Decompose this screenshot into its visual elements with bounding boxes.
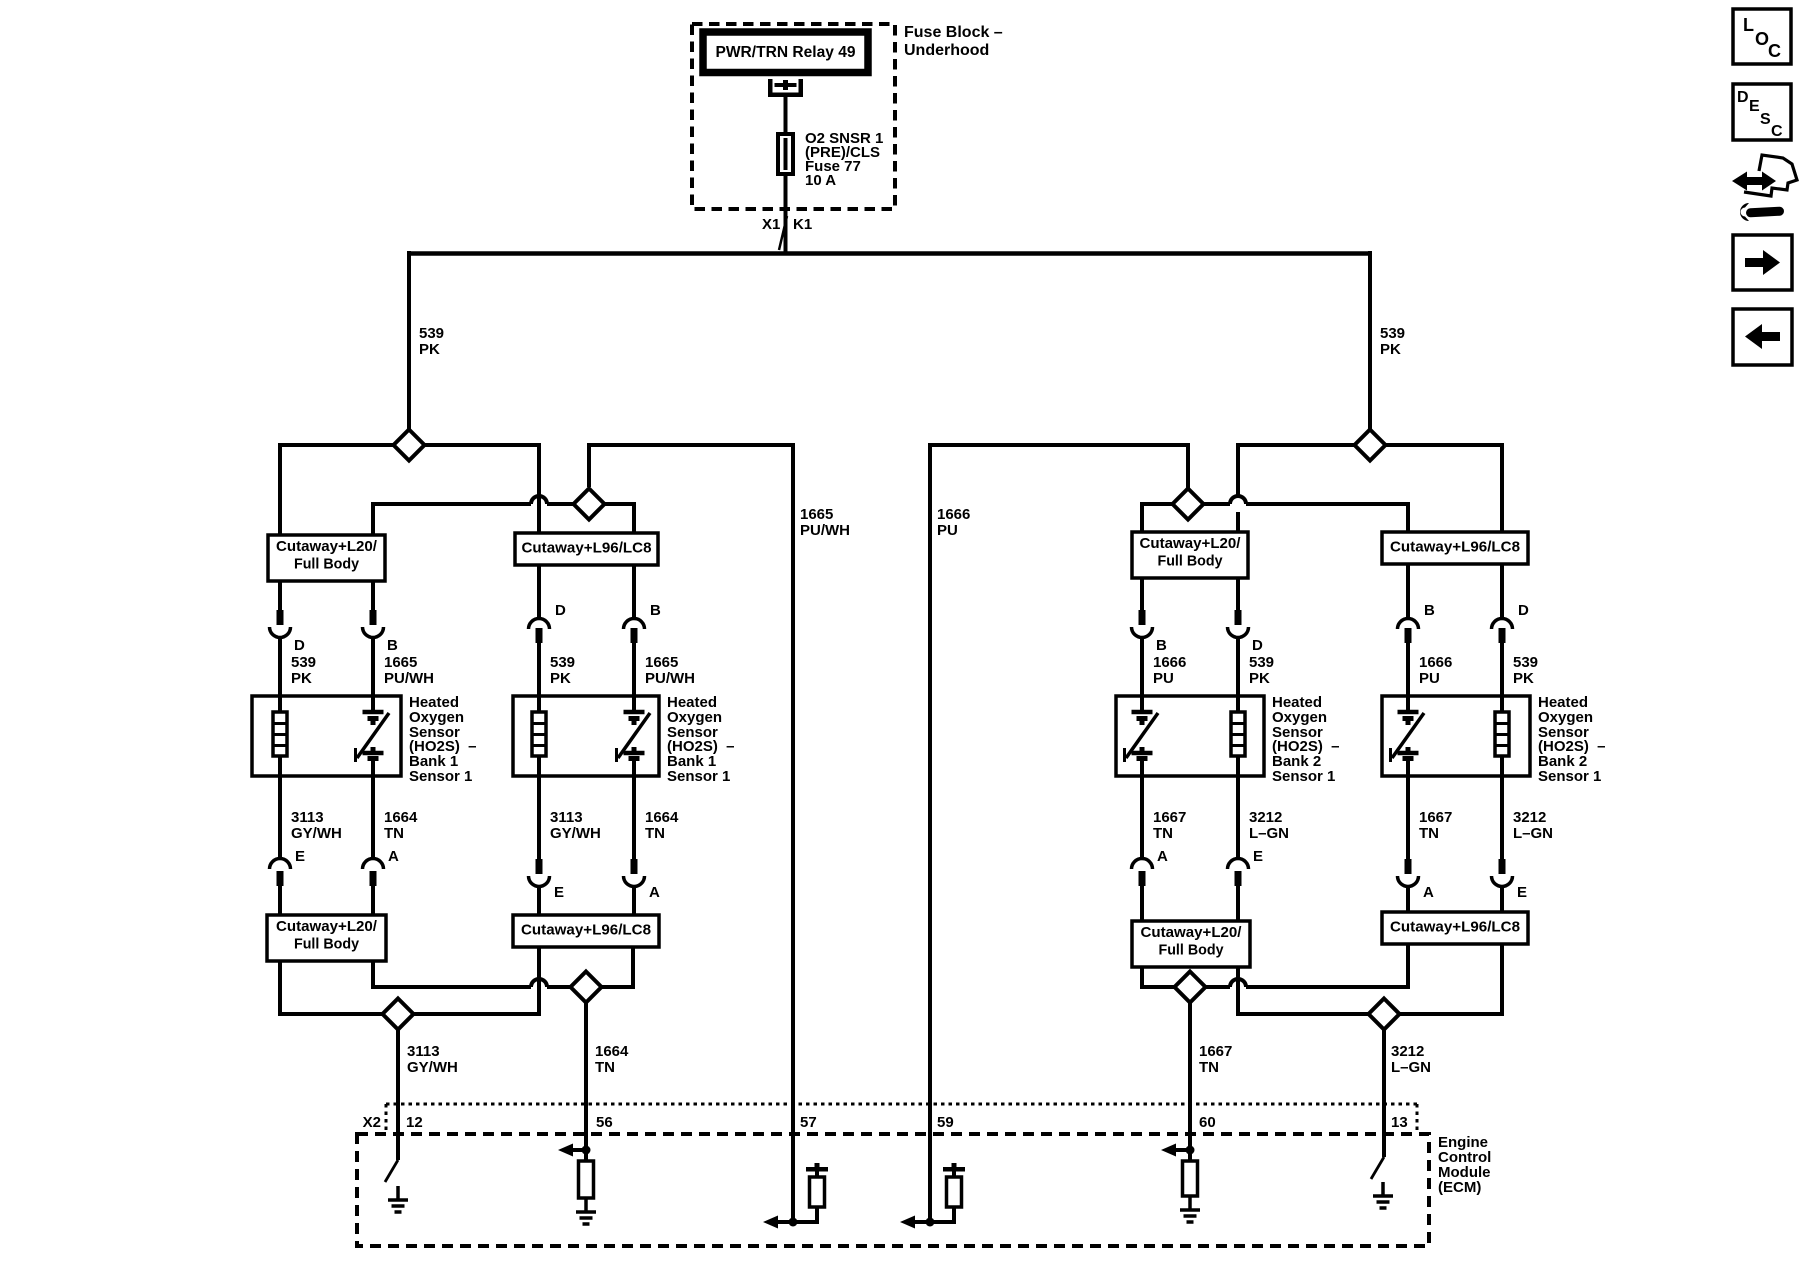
label 539 PK branch3 (1249, 654, 1274, 687)
svg-text:539: 539 (1513, 654, 1538, 671)
ECM pin60 resistor (1183, 1161, 1198, 1196)
ground pin56 (576, 1198, 596, 1224)
wire 539 PK horizontal (right) (1238, 443, 1502, 532)
svg-text:1664: 1664 (384, 809, 418, 826)
svg-text:TN: TN (645, 825, 665, 842)
node X1 / K1 (762, 216, 812, 250)
fuse block - underhood dashed box (692, 24, 895, 209)
svg-text:S: S (1760, 111, 1771, 128)
splice diamond 539 right (1355, 430, 1386, 461)
svg-text:PK: PK (291, 670, 312, 687)
ECM pin56 arrow (558, 1144, 586, 1157)
svg-text:1665: 1665 (645, 654, 678, 671)
svg-text:PU/WH: PU/WH (384, 670, 434, 687)
pin 13 (1391, 1114, 1408, 1131)
label Heated Oxygen Sensor Bank 2 (L96) (1538, 694, 1606, 785)
wire pin D branch3 (1236, 578, 1240, 696)
sensor cell (1391, 696, 1425, 776)
svg-text:Full Body: Full Body (1159, 942, 1225, 959)
label 3212 L-GN (1391, 1043, 1431, 1076)
svg-text:3113: 3113 (407, 1043, 440, 1060)
svg-text:3212: 3212 (1249, 809, 1282, 826)
svg-text:3212: 3212 (1513, 809, 1546, 826)
svg-text:D: D (1252, 637, 1263, 654)
pin E connector branch4 (1492, 859, 1528, 901)
fuse label (805, 130, 883, 189)
heater element (1231, 696, 1245, 776)
splice diamond 1665 left (574, 489, 605, 520)
svg-text:Full Body: Full Body (1158, 553, 1224, 570)
svg-text:3113: 3113 (550, 809, 583, 826)
splice diamond 1666 (1173, 489, 1204, 520)
svg-text:1665: 1665 (800, 506, 833, 523)
ground pin12 (388, 1186, 408, 1212)
label 539 PK branch4 (1513, 654, 1538, 687)
wire 3212 L-GN branch3 (1236, 776, 1240, 921)
svg-text:TN: TN (595, 1059, 615, 1076)
svg-text:L–GN: L–GN (1391, 1059, 1431, 1076)
svg-text:C: C (1771, 123, 1783, 140)
label 539 PK branch1 (291, 654, 316, 687)
wire pin B branch4 (1406, 564, 1410, 696)
svg-text:B: B (387, 637, 398, 654)
svg-text:TN: TN (1153, 825, 1173, 842)
label 1664 TN branch1 (384, 809, 418, 842)
wire 3212 L-GN rail (right) (1236, 944, 1502, 1016)
label Engine Control Module (ECM) (1438, 1134, 1491, 1196)
svg-text:K1: K1 (793, 216, 812, 233)
splice diamond 3212 (1369, 999, 1400, 1030)
svg-text:E: E (1253, 848, 1263, 865)
icon harness arrows and wrench (1732, 155, 1797, 221)
wire 3212 L-GN branch4 (1500, 776, 1504, 912)
wire 1664 TN branch1 (371, 776, 375, 915)
label X2 (363, 1114, 381, 1131)
ECM pin59 arrow (900, 1216, 930, 1229)
splice diamond 1667 (1175, 972, 1206, 1003)
label 3113 GY/WH branch1 (291, 809, 342, 842)
svg-text:539: 539 (419, 325, 444, 342)
svg-text:PK: PK (1380, 341, 1401, 358)
svg-text:D: D (294, 637, 305, 654)
svg-text:1667: 1667 (1419, 809, 1452, 826)
connector box Cutaway+L96/LC8 lower left (513, 915, 659, 947)
label 1666 PU branch4 (1419, 654, 1452, 687)
svg-text:PU/WH: PU/WH (800, 522, 850, 539)
svg-text:Fuse Block –: Fuse Block – (904, 24, 1003, 41)
pin E connector branch1 (270, 848, 306, 886)
svg-text:1666: 1666 (1153, 654, 1186, 671)
svg-text:B: B (650, 602, 661, 619)
fuse block label (904, 24, 1003, 59)
pin 60 (1199, 1114, 1216, 1131)
svg-text:3212: 3212 (1391, 1043, 1424, 1060)
label 1666 PU branch3 (1153, 654, 1186, 687)
svg-text:Sensor 1: Sensor 1 (667, 768, 730, 785)
svg-text:12: 12 (406, 1114, 423, 1131)
pin A connector branch4 (1398, 859, 1435, 901)
svg-text:Full Body: Full Body (294, 936, 360, 953)
wire relay to fuse (784, 97, 788, 134)
pin D connector branch3 (1228, 610, 1264, 654)
svg-text:Sensor 1: Sensor 1 (409, 768, 472, 785)
wire 1667 TN branch3 (1140, 776, 1144, 921)
svg-text:GY/WH: GY/WH (550, 825, 601, 842)
wire 1664 TN to ECM pin 56 (584, 1002, 588, 1161)
svg-text:C: C (1768, 41, 1781, 61)
splice diamond 1664 (571, 972, 602, 1003)
svg-text:L–GN: L–GN (1249, 825, 1289, 842)
label 1666 PU (937, 506, 970, 539)
ECM pin12 switch to ground (385, 1160, 398, 1182)
svg-text:E: E (554, 884, 564, 901)
svg-text:1666: 1666 (937, 506, 970, 523)
svg-text:10 A: 10 A (805, 172, 836, 189)
svg-text:Full Body: Full Body (294, 556, 360, 573)
wire pin B branch2 (632, 565, 636, 696)
svg-text:X2: X2 (363, 1114, 381, 1131)
ECM connector strip dotted line X2 (386, 1104, 1417, 1134)
ECM dashed box (357, 1134, 1429, 1246)
svg-text:L–GN: L–GN (1513, 825, 1553, 842)
svg-text:57: 57 (800, 1114, 817, 1131)
pin D connector branch4 (1492, 602, 1530, 643)
svg-text:D: D (1737, 89, 1749, 106)
svg-text:Cutaway+L20/: Cutaway+L20/ (1140, 535, 1242, 552)
svg-text:Sensor 1: Sensor 1 (1538, 768, 1601, 785)
svg-text:Cutaway+L96/LC8: Cutaway+L96/LC8 (521, 922, 651, 939)
label 3113 GY/WH (407, 1043, 458, 1076)
svg-text:B: B (1424, 602, 1435, 619)
svg-text:539: 539 (1380, 325, 1405, 342)
heater element (1495, 696, 1509, 776)
svg-text:PWR/TRN Relay 49: PWR/TRN Relay 49 (716, 44, 856, 61)
pin B connector branch4 (1398, 602, 1436, 643)
connector box Cutaway+L20/Full Body upper right (1132, 532, 1248, 578)
svg-text:A: A (1423, 884, 1434, 901)
label Heated Oxygen Sensor Bank 1 (409, 694, 477, 785)
wire 539 PK left drop (407, 251, 411, 431)
sensor cell (617, 696, 651, 776)
wire 3113 GY/WH to ECM pin 12 (396, 1029, 400, 1160)
relay PWR/TRN Relay 49 (703, 32, 868, 73)
svg-text:3113: 3113 (291, 809, 324, 826)
svg-text:O: O (1755, 29, 1769, 49)
wire 1664 TN rail (left) with hop (371, 947, 633, 989)
svg-text:TN: TN (1199, 1059, 1219, 1076)
HO2S sensor box bank1 sensor1 (L20) (252, 696, 401, 776)
label 539 PK left (419, 325, 444, 358)
svg-text:1666: 1666 (1419, 654, 1452, 671)
wire top bus 539 PK (409, 251, 1370, 256)
pin B connector branch1 (363, 610, 399, 654)
label Heated Oxygen Sensor Bank 2 (1272, 694, 1340, 785)
wire 3113 GY/WH branch1 (278, 776, 282, 915)
splice diamond 539 left (394, 430, 425, 461)
wire 1665 PU/WH riser (left) (587, 443, 793, 1222)
svg-text:PK: PK (1513, 670, 1534, 687)
svg-text:A: A (649, 884, 660, 901)
ECM pin13 switch to ground (1371, 1157, 1384, 1179)
connector box Cutaway+L20/Full Body upper left (268, 535, 385, 581)
wire 539 PK to L96 branch with hop (537, 443, 541, 535)
label Heated Oxygen Sensor Bank 1 (L96) (667, 694, 735, 785)
svg-text:59: 59 (937, 1114, 954, 1131)
svg-text:Cutaway+L96/LC8: Cutaway+L96/LC8 (1390, 919, 1520, 936)
pin A connector branch3 (1132, 848, 1169, 886)
wire 1666 PU riser (928, 443, 1188, 1222)
svg-text:539: 539 (1249, 654, 1274, 671)
wire pin B branch1 (371, 581, 375, 696)
svg-text:PK: PK (550, 670, 571, 687)
svg-text:E: E (1517, 884, 1527, 901)
svg-text:56: 56 (596, 1114, 613, 1131)
svg-text:D: D (1518, 602, 1529, 619)
pin D connector branch2 (529, 602, 567, 643)
sensor cell (356, 696, 390, 776)
pin D connector branch1 (270, 610, 306, 654)
label 1667 TN branch4 (1419, 809, 1452, 842)
svg-text:PK: PK (419, 341, 440, 358)
label 1664 TN branch2 (645, 809, 679, 842)
wire 1667 TN branch4 (1406, 776, 1410, 912)
wire 1664 TN branch2 (632, 776, 636, 915)
wire 1667 TN to ECM pin 60 (1188, 1002, 1192, 1161)
svg-text:PU: PU (937, 522, 958, 539)
label 3113 GY/WH branch2 (550, 809, 601, 842)
label 3212 L-GN branch3 (1249, 809, 1289, 842)
connector box Cutaway+L20/Full Body lower right (1132, 921, 1250, 967)
icon DESC (1733, 84, 1791, 140)
label 1665 PU/WH branch1 (384, 654, 434, 687)
svg-text:PU: PU (1419, 670, 1440, 687)
label 1665 PU/WH branch2 (645, 654, 695, 687)
svg-text:B: B (1156, 637, 1167, 654)
label 1667 TN branch3 (1153, 809, 1186, 842)
svg-text:D: D (555, 602, 566, 619)
svg-text:Cutaway+L20/: Cutaway+L20/ (276, 538, 378, 555)
pin 57 (800, 1114, 817, 1131)
pin B connector branch2 (624, 602, 662, 643)
svg-text:539: 539 (291, 654, 316, 671)
heater element (532, 696, 546, 776)
svg-text:PU: PU (1153, 670, 1174, 687)
icon prev arrow (1733, 309, 1792, 365)
label 1665 PU/WH (800, 506, 850, 539)
svg-text:Underhood: Underhood (904, 42, 989, 59)
label 3212 L-GN branch4 (1513, 809, 1553, 842)
svg-text:PU/WH: PU/WH (645, 670, 695, 687)
svg-text:L: L (1743, 15, 1754, 35)
pin E connector branch3 (1228, 848, 1264, 886)
svg-text:1665: 1665 (384, 654, 417, 671)
pin A connector branch1 (363, 848, 400, 886)
sensor cell (1125, 696, 1159, 776)
ECM pin59 output arrow and resistor (930, 1163, 965, 1224)
pin B connector branch3 (1132, 610, 1168, 654)
label 1664 TN (595, 1043, 629, 1076)
HO2S sensor box bank2 sensor1 (L96) (1382, 696, 1530, 776)
svg-text:TN: TN (384, 825, 404, 842)
pin E connector branch2 (529, 859, 565, 901)
label 539 PK right (1380, 325, 1405, 358)
svg-text:E: E (295, 848, 305, 865)
svg-text:(ECM): (ECM) (1438, 1179, 1481, 1196)
svg-text:TN: TN (1419, 825, 1439, 842)
wire pin B branch3 (1140, 578, 1144, 696)
ECM pin56 resistor (579, 1161, 594, 1198)
wire 3212 L-GN to ECM pin 13 (1382, 1029, 1386, 1157)
icon LOC (1733, 9, 1791, 64)
svg-text:13: 13 (1391, 1114, 1408, 1131)
heater element (273, 696, 287, 776)
connector box Cutaway+L96/LC8 upper left (515, 533, 658, 565)
ground pin13 (1373, 1182, 1393, 1208)
svg-text:GY/WH: GY/WH (407, 1059, 458, 1076)
wire pin D branch4 (1500, 564, 1504, 696)
wire 539 PK right drop (1368, 251, 1372, 431)
ground pin60 (1180, 1196, 1200, 1222)
label 539 PK branch2 (550, 654, 575, 687)
svg-text:A: A (388, 848, 399, 865)
svg-text:1664: 1664 (595, 1043, 629, 1060)
svg-text:GY/WH: GY/WH (291, 825, 342, 842)
svg-text:539: 539 (550, 654, 575, 671)
svg-text:A: A (1157, 848, 1168, 865)
icon next arrow (1733, 235, 1792, 290)
svg-text:1667: 1667 (1153, 809, 1186, 826)
svg-text:1667: 1667 (1199, 1043, 1232, 1060)
svg-text:Cutaway+L20/: Cutaway+L20/ (1141, 924, 1243, 941)
svg-text:Cutaway+L96/LC8: Cutaway+L96/LC8 (522, 540, 652, 557)
HO2S sensor box bank1 sensor1 (L96) (513, 696, 659, 776)
ECM pin57 arrow (763, 1216, 793, 1229)
wire 1665 splice run (left) with hop (373, 496, 634, 535)
relay contact symbol (768, 79, 803, 97)
pin 59 (937, 1114, 954, 1131)
wire 3113 GY/WH rail (left) (278, 947, 539, 1016)
connector box Cutaway+L20/Full Body lower left (267, 915, 386, 961)
wire 1667 TN rail (right) with hop (1140, 944, 1408, 989)
ECM pin60 arrow (1161, 1144, 1190, 1157)
wire pin D branch2 (537, 565, 541, 696)
svg-text:60: 60 (1199, 1114, 1216, 1131)
pin 56 (596, 1114, 613, 1131)
pin A connector branch2 (624, 859, 661, 901)
svg-text:PK: PK (1249, 670, 1270, 687)
wire 539 PK horizontal to branches (left) (280, 443, 538, 535)
ECM pin57 output arrow and resistor (793, 1163, 828, 1224)
wire 3113 GY/WH branch2 (537, 776, 541, 915)
connector box Cutaway+L96/LC8 upper right (1382, 532, 1528, 564)
svg-text:Sensor 1: Sensor 1 (1272, 768, 1335, 785)
svg-text:1664: 1664 (645, 809, 679, 826)
pin 12 (406, 1114, 423, 1131)
svg-text:X1: X1 (762, 216, 780, 233)
wire 1666 splice run (right) with hop (1142, 496, 1408, 532)
connector box Cutaway+L96/LC8 lower right (1382, 912, 1528, 944)
HO2S sensor box bank2 sensor1 (L20) (1116, 696, 1264, 776)
splice diamond 3113 (383, 999, 414, 1030)
label 1667 TN (1199, 1043, 1232, 1076)
wire pin D branch1 (278, 581, 282, 696)
svg-text:E: E (1749, 98, 1760, 115)
svg-text:Cutaway+L96/LC8: Cutaway+L96/LC8 (1390, 539, 1520, 556)
svg-text:Cutaway+L20/: Cutaway+L20/ (276, 918, 378, 935)
fuse O2 SNSR 1 (PRE)/CLS Fuse 77 10 A (778, 134, 793, 253)
